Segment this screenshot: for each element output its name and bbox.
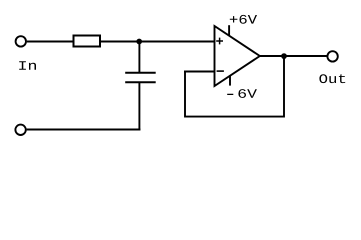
input terminal In (top) — [16, 36, 26, 46]
positive supply pin +6V — [228, 25, 230, 36]
wire lower rail — [27, 129, 141, 131]
op-amp U1 triangle — [215, 26, 260, 86]
output terminal Out — [327, 51, 337, 61]
node junction dot (resistor/capacitor) — [136, 39, 142, 45]
wire op-amp output to Out terminal — [260, 55, 327, 57]
wire capacitor bottom to lower rail — [138, 82, 140, 130]
capacitor C1 top plate — [125, 72, 156, 74]
label +6V — [230, 15, 257, 24]
node output junction dot — [281, 53, 287, 59]
negative supply pin -6V — [229, 75, 231, 85]
op-amp inverting - symbol — [217, 70, 224, 72]
label Out — [319, 74, 345, 83]
resistor R1 — [74, 36, 101, 47]
wire inverting input — [184, 71, 215, 73]
input terminal (bottom return) — [15, 125, 25, 135]
wire resistor to op-amp noninverting input — [101, 41, 216, 43]
wire junction to capacitor top — [138, 42, 140, 73]
op-amp noninverting + symbol — [216, 38, 223, 45]
capacitor C1 bottom plate — [125, 81, 156, 83]
label In — [19, 61, 36, 70]
wire input to resistor — [27, 41, 73, 43]
label -6V — [227, 89, 257, 98]
wire feedback loop (inverting input to output node) — [185, 56, 284, 117]
